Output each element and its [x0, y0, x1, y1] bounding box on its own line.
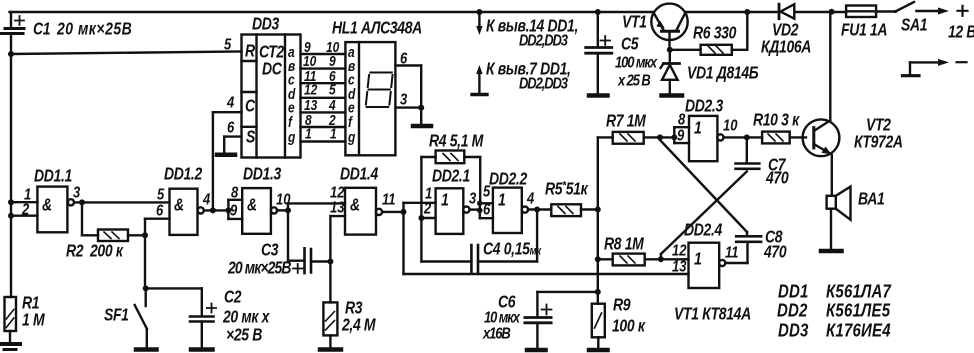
resistor R5 — [551, 204, 598, 216]
node C7 tap — [744, 134, 750, 163]
svg-text:1: 1 — [441, 191, 448, 210]
wire to C3 — [288, 260, 305, 262]
svg-text:VТ2: VТ2 — [866, 116, 891, 135]
label K vyv 7 — [486, 60, 571, 93]
svg-text:20 мк х: 20 мк х — [222, 308, 271, 327]
ground under C6 — [527, 348, 546, 353]
wire middle vertical bus — [597, 137, 599, 292]
label FU1 — [841, 21, 887, 40]
pin number 4 DD3 — [226, 94, 234, 111]
label K vyv 14 — [486, 17, 578, 50]
wire segment f — [301, 126, 346, 128]
pin number 11 DD1.4 — [382, 191, 396, 208]
svg-text:6: 6 — [483, 201, 491, 218]
label C7 — [765, 156, 789, 188]
capacitor C5 — [586, 12, 612, 94]
svg-text:20 мк×25В: 20 мк×25В — [56, 20, 132, 39]
svg-text:9: 9 — [329, 53, 336, 69]
wire DD1.2 out to DD1.3 in — [204, 209, 228, 211]
pin number 12 DD1.4 — [330, 184, 344, 201]
label VD1 — [687, 64, 759, 83]
label VD2 — [761, 21, 811, 57]
label DD1.2 — [164, 165, 203, 184]
ground under BA1 — [821, 249, 842, 254]
parts list DD3 — [778, 320, 891, 341]
svg-text:1: 1 — [498, 191, 505, 210]
wire DD2.2 pin6 — [480, 217, 493, 219]
wire DD2.3 pin8 — [674, 126, 689, 128]
svg-text:5: 5 — [329, 82, 336, 98]
svg-text:20 мк×25В: 20 мк×25В — [227, 259, 291, 278]
svg-text:DD2.4: DD2.4 — [684, 221, 723, 240]
speaker BA1 — [827, 187, 851, 249]
pin number 11 DD2.4 — [725, 244, 739, 261]
resistor R2 — [82, 230, 145, 242]
node C5 rail junction — [595, 9, 601, 15]
wire DD1.2 pin6 — [145, 217, 170, 219]
svg-text:х 25 В: х 25 В — [617, 72, 650, 89]
svg-text:DD1.2: DD1.2 — [164, 165, 203, 184]
wire DD2.4 out to C8 — [725, 242, 747, 263]
pin number 8 DD2.3 — [678, 111, 686, 128]
label C4 — [483, 240, 542, 259]
node DD3 C tap — [210, 207, 216, 213]
svg-text:4: 4 — [202, 191, 210, 208]
svg-text:9: 9 — [677, 127, 684, 144]
label HL1 — [332, 19, 422, 38]
node R6 rail junction — [744, 9, 750, 15]
svg-text:13: 13 — [672, 258, 686, 275]
wire segment e — [301, 111, 346, 113]
label S cell — [246, 128, 256, 147]
pin numbers DD3 outputs — [303, 39, 318, 142]
node DD1.4 out junction — [401, 203, 407, 274]
capacitor C7 — [736, 164, 760, 169]
svg-text:10: 10 — [723, 117, 737, 134]
wire DD1.1 pin2 — [8, 213, 37, 219]
label SF1 — [104, 306, 129, 325]
ground under R9 — [589, 348, 608, 353]
wire SF1 node to C2 — [146, 287, 202, 289]
svg-text:3: 3 — [73, 184, 80, 201]
svg-text:&: & — [42, 196, 52, 215]
arrow from pin7 of DD1 DD2 DD3 — [472, 65, 487, 95]
svg-text:VТ1 КТ814А: VТ1 КТ814А — [674, 305, 751, 324]
diode VD2 — [779, 4, 794, 19]
node DD1.3 input tie — [225, 200, 231, 219]
wire DD1.4 pin13 — [330, 215, 345, 217]
wire DD2.2 pin5 — [480, 202, 493, 204]
pin number 10 DD1.3 — [276, 191, 290, 208]
label DD2.3 — [685, 97, 724, 116]
wire top supply rail right part — [686, 11, 779, 13]
pin number 3 DD2.1 — [469, 190, 476, 207]
svg-text:6: 6 — [227, 119, 235, 136]
gate DD1.2 — [170, 189, 204, 235]
wire segment c — [301, 82, 346, 84]
svg-text:12: 12 — [672, 242, 686, 259]
wire segment d — [301, 97, 346, 99]
svg-text:СТ2: СТ2 — [259, 43, 284, 62]
ground under C5 — [589, 93, 608, 98]
node R7 right diagonal tap — [657, 134, 663, 140]
svg-text:&: & — [174, 196, 184, 215]
node DD1.3 out junction — [285, 203, 291, 260]
svg-text:3: 3 — [469, 190, 476, 207]
pin number 10 DD2.3 — [723, 117, 737, 134]
wire DD1.1 out to DD1.2 in — [74, 201, 170, 203]
svg-text:2: 2 — [423, 200, 431, 217]
svg-text:4: 4 — [526, 190, 534, 207]
wire segment b — [301, 67, 346, 69]
label 12V — [948, 23, 974, 42]
pin number 6 DD2.2 — [483, 201, 491, 218]
label DD1.3 — [243, 165, 282, 184]
pin number 13 DD1.4 — [330, 199, 344, 216]
label C8 — [763, 228, 787, 262]
gate DD1.4 — [345, 188, 382, 235]
svg-text:13: 13 — [304, 97, 318, 113]
wire left vertical bus — [10, 34, 12, 298]
svg-text:С5: С5 — [621, 35, 639, 54]
wire segment g — [301, 140, 346, 142]
wire DD3 C input — [213, 112, 242, 210]
gate DD2.1 — [436, 188, 470, 234]
wire fuse to SA1 — [876, 10, 895, 12]
svg-text:5: 5 — [157, 186, 165, 203]
label R5 — [545, 180, 589, 199]
gate DD2.4 — [689, 243, 726, 288]
node R2 right junction — [142, 219, 148, 289]
pin number 5 DD1.2 — [157, 186, 165, 203]
wire trigger feedback line — [404, 273, 689, 275]
svg-text:4: 4 — [328, 97, 336, 113]
label R cell — [245, 42, 256, 61]
pin number 2 DD1.1 — [21, 201, 29, 218]
svg-text:х16В: х16В — [482, 325, 510, 342]
ground HL1 pin3 — [413, 124, 431, 129]
pin number 3 DD1.1 — [73, 184, 80, 201]
wire rail VD2 to fuse — [795, 11, 847, 13]
wire DD2.3 out to R10 — [724, 136, 763, 138]
gate DD2.2 — [493, 188, 528, 233]
wire DD2.2 out to R5 — [528, 208, 551, 210]
wire HL1 pin3 to ground — [395, 105, 424, 124]
svg-text:DD1.4: DD1.4 — [340, 165, 379, 184]
ground under SF1 — [136, 347, 157, 352]
label SA1 — [901, 16, 927, 35]
svg-text:470: 470 — [765, 169, 789, 188]
svg-text:К561ЛЕ5: К561ЛЕ5 — [826, 300, 891, 321]
wire DD2.4 pin12 — [661, 258, 689, 260]
svg-text:1: 1 — [305, 126, 312, 142]
node VT2 collector rail junction — [829, 9, 835, 15]
label C1 value — [33, 20, 132, 39]
label DD3 — [252, 15, 280, 34]
transistor VT2 — [803, 12, 840, 196]
svg-text:ВА1: ВА1 — [858, 190, 884, 209]
label R3 — [341, 299, 376, 335]
label R9 — [612, 296, 646, 336]
svg-text:DD3: DD3 — [778, 320, 809, 341]
svg-text:6: 6 — [400, 50, 408, 67]
svg-text:&: & — [247, 196, 257, 215]
svg-text:12 В: 12 В — [948, 23, 974, 42]
svg-text:DD2,DD3: DD2,DD3 — [519, 32, 568, 49]
svg-text:R1: R1 — [22, 294, 39, 313]
gate DD1.1 — [37, 187, 74, 233]
label DD1.1 — [34, 167, 72, 186]
ground under R3 — [320, 347, 341, 352]
arrow plus 12V — [916, 6, 967, 16]
label R6 — [693, 24, 737, 43]
svg-text:&: & — [350, 196, 360, 215]
pin number 5 DD3 — [224, 36, 232, 53]
capacitor C1 — [0, 12, 24, 34]
HL1 segment letters — [347, 44, 356, 145]
node C4 tap — [534, 207, 540, 262]
capacitor C4 — [421, 245, 537, 273]
svg-text:g: g — [287, 129, 295, 145]
svg-text:SA1: SA1 — [901, 16, 927, 35]
node R8 bus junction — [595, 256, 601, 262]
label DD2.2 — [489, 170, 528, 189]
svg-text:DC: DC — [262, 60, 283, 79]
svg-text:R6 330: R6 330 — [693, 24, 737, 43]
wire DD2.1 pin2 tie — [418, 203, 435, 262]
gate DD2.3 — [689, 116, 724, 161]
wire to DD1.4 pin12 — [288, 202, 345, 204]
resistor R7 — [598, 132, 675, 144]
wire DD1.3 pin8 — [228, 199, 242, 201]
label CT2 DC — [259, 43, 284, 79]
svg-text:VТ1: VТ1 — [622, 13, 647, 32]
wire DD1.1 pin1 — [8, 199, 37, 205]
label BA1 — [858, 190, 884, 209]
wire DD2.1 pin1 — [404, 202, 436, 204]
pin number 1 DD1.1 — [24, 186, 31, 203]
svg-text:11: 11 — [725, 244, 739, 261]
node R5 out junction — [595, 207, 601, 213]
svg-text:R2: R2 — [66, 242, 84, 261]
node SF1 junction — [143, 285, 149, 291]
resistor R10 — [762, 132, 806, 144]
wire C6 branch — [537, 292, 597, 317]
capacitor C3 — [293, 248, 330, 273]
resistor R9 — [592, 292, 605, 349]
zener VD1 — [661, 50, 680, 94]
label C3 — [227, 241, 291, 278]
wire DD2.1 out — [470, 208, 480, 210]
switch SF1 — [135, 288, 147, 347]
svg-text:1: 1 — [330, 126, 337, 142]
arrow to pin14 of DD1 DD2 DD3 — [476, 12, 482, 35]
pin number 5 DD2.2 — [483, 183, 491, 200]
svg-text:R4 5,1 М: R4 5,1 М — [429, 132, 484, 151]
svg-text:3: 3 — [400, 91, 407, 108]
label DD2.4 — [684, 221, 723, 240]
transistor VT1 — [651, 4, 687, 50]
svg-text:К176ИЕ4: К176ИЕ4 — [826, 320, 891, 341]
switch SA1 — [894, 2, 914, 13]
label C cell — [245, 97, 256, 116]
svg-text:С1: С1 — [33, 20, 50, 39]
svg-text:SF1: SF1 — [104, 306, 129, 325]
svg-text:1: 1 — [694, 119, 701, 138]
wire DD1.4 out — [382, 211, 403, 213]
svg-text:C: C — [245, 97, 256, 116]
svg-text:VD1 Д814Б: VD1 Д814Б — [687, 64, 759, 83]
svg-text:1: 1 — [694, 250, 701, 269]
label R8 — [604, 235, 645, 254]
capacitor C8 — [736, 236, 761, 242]
pin number 12 DD2.4 — [672, 242, 686, 259]
counter DD3 — [242, 35, 301, 158]
svg-text:R5*51к: R5*51к — [545, 180, 589, 199]
pin number 6 DD1.2 — [156, 202, 164, 219]
label R7 — [606, 112, 647, 131]
label DD1.4 — [340, 165, 379, 184]
svg-text:R10 3 к: R10 3 к — [753, 111, 800, 130]
svg-text:DD2: DD2 — [777, 300, 808, 321]
ground under R1 — [0, 344, 20, 350]
svg-text:2: 2 — [21, 201, 29, 218]
label R1 — [22, 294, 46, 330]
svg-text:R8 1М: R8 1М — [604, 235, 645, 254]
pin number 8 DD1.3 — [231, 184, 239, 201]
node VT1 base junction — [667, 47, 673, 53]
svg-text:S: S — [246, 128, 256, 147]
wire DD3 S input to ground — [224, 137, 241, 153]
svg-text:DD1.3: DD1.3 — [243, 165, 282, 184]
svg-text:13: 13 — [330, 199, 344, 216]
pin number 13 DD2.4 — [672, 258, 686, 275]
node C1 lower junction — [8, 51, 14, 57]
capacitor C2 — [190, 288, 216, 347]
svg-text:R7 1М: R7 1М — [606, 112, 647, 131]
ground under VD1 — [662, 93, 683, 98]
parts list DD1 — [778, 281, 892, 302]
pin number 9 DD2.3 — [677, 127, 684, 144]
svg-text:10 мкх: 10 мкх — [484, 309, 521, 326]
node DD1.1 output junction — [79, 199, 85, 235]
svg-text:КТ972А: КТ972А — [854, 133, 903, 152]
wire node to DD3 R input — [11, 52, 242, 55]
minus terminal — [902, 59, 966, 76]
pin number 1 DD2.1 — [425, 185, 432, 202]
node rail to logic supply arrow — [476, 9, 482, 15]
label DD2.1 — [432, 167, 470, 186]
wire diagonal DD2.3 input to C8 — [660, 140, 747, 236]
wire HL1 pin6 — [395, 66, 421, 108]
ground DD3 S — [217, 153, 235, 158]
svg-text:DD2.2: DD2.2 — [489, 170, 528, 189]
svg-text:8: 8 — [231, 184, 239, 201]
svg-text:200 к: 200 к — [89, 242, 124, 261]
pin number 4 DD1.2 — [202, 191, 210, 208]
display HL1 — [345, 42, 395, 155]
svg-text:DD1: DD1 — [778, 281, 809, 302]
svg-text:R3: R3 — [345, 299, 363, 318]
node C3 right junction — [327, 216, 333, 302]
gate DD1.3 — [242, 188, 277, 234]
wire DD1.3 pin9 — [228, 218, 242, 220]
label R2 — [66, 242, 124, 261]
svg-text:×25 В: ×25 В — [226, 326, 262, 345]
svg-text:VD2: VD2 — [772, 21, 799, 40]
capacitor C6 — [525, 305, 552, 349]
svg-text:100 мкх: 100 мкх — [615, 54, 658, 71]
pin number 2 DD2.1 — [423, 200, 431, 217]
label VT1 — [622, 13, 647, 32]
label C5 — [615, 35, 658, 90]
svg-text:DD2.3: DD2.3 — [685, 97, 724, 116]
svg-text:1 М: 1 М — [22, 311, 46, 330]
ground under C2 — [191, 347, 213, 352]
wire DD2.3 pin9 — [674, 142, 689, 144]
wire diagonal C7 to DD2.4 input — [661, 172, 747, 260]
pin numbers HL1 inputs — [326, 39, 340, 142]
resistor R1 — [5, 297, 17, 342]
pin number 9 DD1.3 — [230, 202, 237, 219]
svg-text:5: 5 — [224, 36, 232, 53]
svg-text:100 к: 100 к — [612, 317, 646, 336]
wire segment a — [301, 53, 346, 55]
svg-text:FU1 1A: FU1 1A — [841, 21, 887, 40]
resistor R3 — [323, 302, 337, 347]
svg-text:12: 12 — [304, 82, 318, 98]
node DD2.2 input tie — [477, 201, 483, 219]
label R10 — [753, 111, 800, 130]
svg-text:11: 11 — [382, 191, 396, 208]
pin number 4 DD2.2 — [526, 190, 534, 207]
node R9 C6 junction — [595, 289, 601, 295]
svg-text:g: g — [347, 129, 355, 145]
svg-text:DD2,DD3: DD2,DD3 — [519, 75, 568, 92]
svg-text:DD2.1: DD2.1 — [432, 167, 470, 186]
svg-text:КД106А: КД106А — [761, 38, 811, 57]
node DD2.4 pin12 junction — [658, 256, 664, 262]
svg-text:6: 6 — [156, 202, 164, 219]
wire top supply rail left part — [10, 11, 654, 13]
DD3 output letters — [287, 44, 296, 145]
svg-text:470: 470 — [763, 243, 787, 262]
wire DD1.3 out — [277, 209, 288, 211]
label C2 — [222, 288, 271, 345]
svg-text:2,4 М: 2,4 М — [341, 316, 376, 335]
seven segment digit — [366, 73, 393, 108]
label VT2 — [854, 116, 903, 152]
label VT1 type — [674, 305, 751, 324]
node DD2.3 input tie — [671, 127, 677, 143]
svg-text:R9: R9 — [613, 296, 631, 315]
parts list DD2 — [777, 300, 891, 321]
svg-text:4: 4 — [226, 94, 234, 111]
label R4 — [429, 132, 484, 151]
pin number 6 HL1 — [400, 50, 408, 67]
svg-text:С3: С3 — [261, 241, 279, 260]
label C6 — [482, 293, 521, 343]
pin number 6 DD3 — [227, 119, 235, 136]
fuse FU1 — [846, 6, 876, 18]
svg-text:9: 9 — [230, 202, 237, 219]
svg-text:DD3: DD3 — [252, 15, 280, 34]
svg-text:К561ЛА7: К561ЛА7 — [826, 281, 892, 302]
resistor R6 — [670, 12, 748, 55]
pin number 3 HL1 — [400, 91, 407, 108]
resistor R4 — [421, 151, 480, 204]
resistor R8 — [598, 254, 661, 266]
